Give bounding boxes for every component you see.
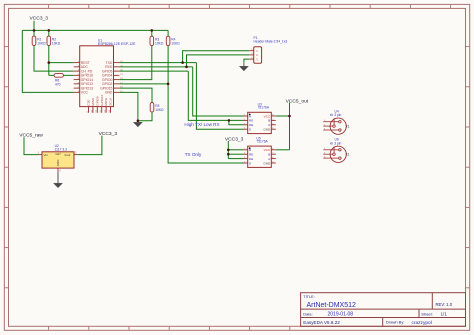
wire: tie to U5 R <box>228 149 243 151</box>
wire: R2 top <box>48 30 50 36</box>
junction TXD row / P1 branch <box>181 61 184 64</box>
junction at rail / R2 <box>48 29 51 32</box>
wire: R6 right to GPIO16 <box>63 74 73 76</box>
frame ticks left <box>4 47 8 288</box>
svg-text:10KΩ: 10KΩ <box>155 108 164 112</box>
svg-text:xlr 3 pin: xlr 3 pin <box>330 141 342 145</box>
svg-text:1/1: 1/1 <box>441 312 448 317</box>
U1 right pin names <box>100 61 113 95</box>
svg-text:VCC3_3: VCC3_3 <box>30 15 49 21</box>
svg-text:xlr 3 pin: xlr 3 pin <box>330 113 342 117</box>
junction at rail / R3 <box>151 29 154 32</box>
svg-text:GND: GND <box>56 159 60 167</box>
wire: 3.3V top rail <box>22 29 168 31</box>
junction VCC3_3 tie / U5 R <box>227 149 230 152</box>
wire: GPIO2 row to R4 vertical <box>119 83 168 85</box>
wire: U5 VCC to VCC5_out rail <box>276 149 290 151</box>
svg-text:GPIO9: GPIO9 <box>95 96 99 106</box>
svg-text:10KΩ: 10KΩ <box>52 42 61 46</box>
svg-text:ArtNet-DMX512: ArtNet-DMX512 <box>307 302 357 309</box>
regulator U2 AMS1117-3.3 <box>38 144 78 173</box>
wire: VCC5_out flag stem down to U5 VCC <box>289 103 291 150</box>
svg-text:Date:: Date: <box>303 311 313 316</box>
svg-text:RE: RE <box>249 153 253 157</box>
svg-text:CS0: CS0 <box>87 99 91 105</box>
svg-text:DE: DE <box>249 123 253 127</box>
frame ticks top <box>49 4 451 8</box>
svg-text:VCC: VCC <box>264 148 271 152</box>
junction ground node below R5 <box>137 119 140 122</box>
svg-text:EasyEDA V5.8.22: EasyEDA V5.8.22 <box>303 320 340 325</box>
ground below P1 <box>239 63 248 71</box>
svg-text:B: B <box>268 153 270 157</box>
svg-text:GPIO10: GPIO10 <box>100 94 104 105</box>
U1 left pin numbers <box>78 61 80 93</box>
svg-text:VCC: VCC <box>81 91 89 95</box>
connector U4 xlr 3 pin <box>323 109 349 134</box>
junction U3 RE/DE tie <box>228 119 231 122</box>
wire: RE-DE tie <box>229 120 244 124</box>
svg-text:DE: DE <box>249 157 253 161</box>
junction at rail / R1 / VCC3_3 flag <box>33 29 36 32</box>
junction VCC5_out rail / U3 VCC <box>288 115 291 118</box>
U1 bottom pin names rotated <box>87 94 113 105</box>
wire: RXD row <box>119 66 192 68</box>
svg-text:ESP8266-12E ESP-12E: ESP8266-12E ESP-12E <box>98 42 136 46</box>
resistor R4 <box>166 36 180 46</box>
U1 left pin names <box>81 61 93 95</box>
wire: RXD down to U3 R <box>193 67 244 116</box>
header P1 <box>249 36 287 64</box>
wire: VCC3_3 flag stem top-left <box>33 21 35 31</box>
resistor R3 <box>150 36 164 46</box>
wire: R2 bottom through REST tap down to R6 <box>48 46 50 76</box>
wire: GPIO5 down to U3 RE <box>188 71 243 120</box>
wire: REST row <box>49 62 74 64</box>
wire: R1 bottom to CH_PD <box>34 46 74 72</box>
resistor R6 <box>54 74 63 87</box>
U1 bottom pin numbers <box>87 109 111 112</box>
wire: GPIO15 to R5 <box>119 88 152 102</box>
wire: R1 top <box>33 30 35 36</box>
wire: U1 GND pin down to ground <box>119 92 137 118</box>
svg-text:GND: GND <box>263 128 271 132</box>
svg-text:VCC: VCC <box>264 114 271 118</box>
svg-text:MOSI: MOSI <box>104 98 108 106</box>
wire: R4 bottom down to U5 D row <box>168 46 243 163</box>
wire: tie to U5 RE <box>228 153 243 155</box>
svg-text:VCC3_3: VCC3_3 <box>225 136 244 142</box>
wire: VCC3_3 flag stem at U5 <box>227 141 229 159</box>
resistor R1 <box>32 36 46 46</box>
wire: tie to U5 DE <box>228 158 243 160</box>
svg-text:MISO: MISO <box>91 97 95 105</box>
title block <box>301 293 466 327</box>
svg-text:Sheet:: Sheet: <box>421 311 433 316</box>
resistor R5 <box>150 103 164 113</box>
svg-text:X1: X1 <box>345 153 349 157</box>
svg-text:Vout: Vout <box>64 153 70 157</box>
svg-text:TITLE:: TITLE: <box>303 295 314 299</box>
svg-text:1117: 1117 <box>55 152 61 156</box>
junction VCC3_3 tie / U5 RE <box>227 153 230 156</box>
U1 bottom pin stubs <box>89 107 111 113</box>
transceiver U5 75176A <box>244 136 276 167</box>
svg-text:SCLK: SCLK <box>109 98 113 106</box>
U1 right pin numbers <box>120 61 123 93</box>
svg-text:B: B <box>268 119 270 123</box>
svg-text:1117 3.3: 1117 3.3 <box>55 147 68 151</box>
svg-text:X1: X1 <box>345 125 349 129</box>
wire: TXD down to U3 D <box>196 63 243 130</box>
svg-text:Header-Male-2.54_1x3: Header-Male-2.54_1x3 <box>254 40 288 44</box>
wire: U3 VCC to VCC5_out rail <box>276 115 290 117</box>
transceiver U3 75176A <box>244 102 276 133</box>
svg-text:10KΩ: 10KΩ <box>155 42 164 46</box>
svg-text:Drawn By:: Drawn By: <box>386 320 404 325</box>
wire: P1 pin3 to ground <box>244 59 249 63</box>
wire: R4 top <box>167 30 169 36</box>
svg-text:75176A: 75176A <box>258 106 270 110</box>
svg-text:2019-01-08: 2019-01-08 <box>328 312 354 318</box>
junction REST row / R2 branch <box>48 61 51 64</box>
wire: R3 top <box>151 30 153 36</box>
wire: rail corner down to U1 VCC pin <box>22 30 73 92</box>
svg-text:REV: 1.0: REV: 1.0 <box>436 302 453 307</box>
junction GPIO2 row / R4 vertical <box>167 83 170 86</box>
svg-text:470: 470 <box>55 83 61 87</box>
ground below U2 <box>54 171 63 187</box>
svg-text:crazzypol: crazzypol <box>412 320 432 326</box>
wire: U2 Vout up to VCC3_3 flag <box>77 136 102 155</box>
U1 right pin stubs <box>114 63 120 93</box>
svg-text:GND: GND <box>263 161 271 165</box>
ground below U1 GND <box>133 119 142 127</box>
svg-text:TX Only: TX Only <box>185 152 202 157</box>
resistor R2 <box>47 36 61 46</box>
wire: VCC5_raw flag to U2 Vin <box>24 137 39 154</box>
wire: R5 bottom to ground node <box>138 112 152 121</box>
svg-text:GND: GND <box>105 91 113 95</box>
frame ticks right <box>466 47 470 288</box>
IC U1 ESP8266-12E module <box>80 38 136 106</box>
svg-text:VCC5_raw: VCC5_raw <box>19 132 43 138</box>
svg-text:VCC3_3: VCC3_3 <box>99 131 118 137</box>
wire: TXD branch up to P1 pin1 <box>183 51 250 63</box>
svg-text:High TX/ Low RX: High TX/ Low RX <box>184 122 219 127</box>
wire: to R6 left <box>49 74 54 76</box>
wire: GPIO5 row <box>119 70 188 72</box>
svg-text:Vin: Vin <box>44 153 49 157</box>
junction RXD row / P1 branch <box>185 66 188 69</box>
svg-text:RE: RE <box>249 119 253 123</box>
connector U6 xlr 3 pin <box>323 138 349 163</box>
wire: RXD branch up to P1 pin2 <box>187 55 250 67</box>
svg-text:10KΩ: 10KΩ <box>37 42 46 46</box>
frame ticks bottom <box>49 326 290 330</box>
wire: R3 bottom to GPIO4 <box>119 46 151 80</box>
U1 left pin stubs <box>74 63 80 93</box>
svg-text:10KΩ: 10KΩ <box>171 42 180 46</box>
wire: TXD row <box>119 62 196 64</box>
title block text <box>303 295 452 325</box>
svg-text:VCC5_out: VCC5_out <box>286 98 309 104</box>
svg-text:75176A: 75176A <box>256 140 268 144</box>
